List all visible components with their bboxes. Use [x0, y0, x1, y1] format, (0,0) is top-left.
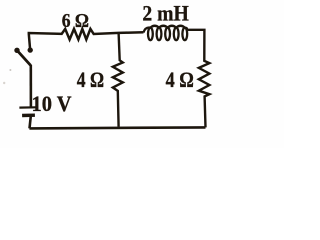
svg-text:4 Ω: 4 Ω	[166, 67, 194, 92]
svg-text:4 Ω: 4 Ω	[77, 67, 104, 92]
svg-text:2 mH: 2 mH	[142, 0, 189, 25]
svg-text:10 V: 10 V	[32, 91, 72, 116]
svg-text:6 Ω: 6 Ω	[62, 10, 89, 32]
